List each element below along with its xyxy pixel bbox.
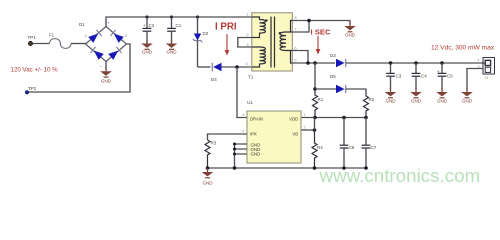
svg-text:2: 2 (304, 126, 306, 130)
core (271, 17, 275, 68)
svg-text:GND: GND (101, 79, 112, 84)
svg-text:GND: GND (386, 98, 397, 103)
svg-text:GND: GND (167, 50, 178, 55)
svg-text:1: 1 (247, 13, 249, 17)
svg-text:R2: R2 (369, 97, 375, 102)
ground top right (344, 22, 356, 37)
diode D1 bottom-left (90, 47, 103, 60)
test point TP1 (28, 35, 37, 46)
node dots VDD row (313, 116, 317, 120)
IC U1 (243, 100, 306, 163)
node dot D2 (196, 15, 199, 18)
svg-text:IPK: IPK (250, 132, 257, 137)
svg-text:6: 6 (243, 130, 245, 134)
svg-text:DRAIN: DRAIN (250, 116, 263, 121)
capacitor C6 (340, 118, 355, 169)
node dot FB (313, 128, 317, 132)
arrow I SEC (316, 36, 321, 55)
svg-text:4: 4 (246, 62, 248, 66)
resistor R4 (312, 130, 323, 168)
svg-text:+: + (107, 21, 110, 26)
capacitor C5 polarized (437, 63, 453, 91)
svg-text:GND: GND (462, 98, 473, 103)
wire FB row (301, 129, 315, 131)
svg-text:TP1: TP1 (28, 35, 37, 40)
transformer T1 (246, 13, 297, 80)
primary winding bottom (252, 47, 266, 67)
ground below C2 (141, 40, 153, 55)
fuse F1 (49, 33, 71, 49)
node dot D5 branch (313, 87, 317, 91)
svg-text:GND: GND (142, 50, 153, 55)
svg-text:TP2: TP2 (28, 86, 37, 91)
capacitor C7 (362, 118, 377, 169)
node dots secondary rail (306, 61, 310, 65)
svg-text:D5: D5 (330, 74, 336, 79)
resistor R3 (205, 140, 217, 168)
connector J1 (478, 58, 495, 81)
svg-text:2: 2 (247, 33, 249, 37)
wire D2 to D4 (198, 66, 211, 68)
U1 GND pins chain (235, 144, 248, 168)
ground below C1 (166, 40, 178, 55)
capacitor C2 (143, 17, 155, 44)
wire IPK to R3 (208, 134, 248, 140)
svg-text:3: 3 (247, 43, 249, 47)
primary series bracket pins 2-3 (238, 38, 252, 48)
svg-text:GND: GND (251, 152, 261, 157)
svg-text:D1: D1 (79, 22, 85, 27)
svg-text:VB: VB (292, 131, 298, 136)
svg-text:C6: C6 (349, 145, 355, 150)
diode D5 (315, 74, 366, 96)
diode D4 (211, 63, 251, 82)
node dot drain junction (235, 65, 239, 69)
zener diode D2 (193, 17, 209, 67)
svg-text:120 Vac +/- 10 %: 120 Vac +/- 10 % (11, 67, 59, 74)
svg-text:1: 1 (304, 113, 306, 117)
svg-text:D2: D2 (203, 31, 209, 36)
wire bridge top to rail (106, 17, 252, 27)
wire secondary top pins to GND (292, 21, 350, 33)
bridge rectifier D1 (79, 21, 128, 71)
primary winding top (252, 17, 266, 38)
secondary winding (280, 21, 292, 64)
svg-text:GND: GND (437, 98, 448, 103)
wire fuse to bridge (71, 43, 86, 45)
svg-text:J1: J1 (485, 76, 489, 80)
ground rail (208, 167, 367, 169)
capacitor C3 (386, 63, 402, 91)
ground below J1 (461, 88, 473, 103)
wire VDD row (301, 117, 366, 119)
svg-text:C4: C4 (421, 74, 427, 79)
svg-text:D4: D4 (211, 77, 217, 82)
node dot C2 (145, 15, 148, 18)
svg-text:C5: C5 (447, 74, 453, 79)
node dot sec top (307, 19, 311, 23)
wire J1 pin2 to ground (467, 69, 483, 91)
svg-text:+: + (143, 23, 146, 28)
svg-text:R1: R1 (318, 97, 324, 102)
diode D1 top-left (88, 30, 101, 43)
svg-text:5: 5 (295, 59, 297, 63)
arrow I PRI (225, 34, 230, 56)
svg-text:8: 8 (295, 16, 297, 20)
test point TP2 (25, 86, 37, 94)
wire TP1 to fuse (33, 43, 50, 45)
resistor R1 (313, 89, 324, 118)
svg-text:8: 8 (243, 113, 245, 117)
svg-text:12 Vdc, 300 mW max: 12 Vdc, 300 mW max (431, 45, 495, 52)
ground below C5 (436, 88, 448, 103)
diode D1 bottom-right (108, 47, 121, 60)
wire bridge right to TP2 (29, 44, 130, 92)
svg-text:GND: GND (411, 98, 422, 103)
svg-text:U1: U1 (247, 100, 253, 105)
ground below C3 (385, 88, 397, 103)
svg-text:VDD: VDD (289, 116, 298, 121)
node dot C1 (170, 15, 173, 18)
wire secondary lower pins to rail (292, 51, 335, 64)
svg-text:T1: T1 (248, 75, 254, 80)
svg-text:D3: D3 (330, 53, 336, 58)
wire rail branch down to D5 (314, 63, 316, 89)
svg-text:R3: R3 (211, 141, 217, 146)
svg-text:I SEC: I SEC (311, 28, 332, 37)
svg-text:C7: C7 (371, 145, 377, 150)
svg-text:1: 1 (478, 58, 480, 62)
svg-text:www.cntronics.com: www.cntronics.com (319, 165, 481, 186)
ground below C4 (410, 88, 422, 103)
resistor R2 (364, 96, 375, 118)
svg-text:7: 7 (295, 28, 297, 32)
svg-text:I PRI: I PRI (215, 22, 237, 33)
ground symbol bottom left (202, 166, 214, 185)
capacitor C4 (412, 63, 428, 91)
wire drain junction down to U1 DRAIN (237, 67, 247, 118)
svg-text:C2: C2 (149, 23, 155, 28)
diode D3 (330, 53, 485, 67)
output node dots (389, 61, 393, 65)
svg-text:GND: GND (345, 32, 356, 37)
ground below bridge (100, 62, 112, 84)
svg-text:R4: R4 (317, 145, 323, 150)
svg-text:GND: GND (203, 180, 214, 185)
capacitor C1 (167, 17, 182, 44)
svg-text:F1: F1 (49, 33, 55, 38)
diode D1 top-right (110, 30, 123, 43)
svg-text:C1: C1 (176, 23, 182, 28)
svg-text:C3: C3 (396, 74, 402, 79)
